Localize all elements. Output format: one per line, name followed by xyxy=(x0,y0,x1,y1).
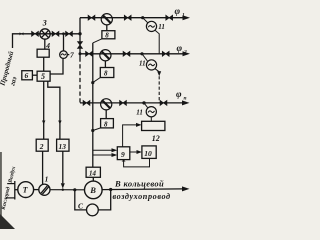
svg-text:9: 9 xyxy=(121,150,125,159)
svg-text:3: 3 xyxy=(42,19,47,28)
svg-text:8: 8 xyxy=(105,32,109,40)
svg-text:1: 1 xyxy=(45,175,49,184)
svg-text:11: 11 xyxy=(136,109,143,117)
svg-text:13: 13 xyxy=(59,142,67,151)
svg-text:воздухопровод: воздухопровод xyxy=(113,192,171,201)
svg-text:В: В xyxy=(89,185,96,195)
svg-text:12: 12 xyxy=(152,134,160,143)
svg-text:8: 8 xyxy=(104,70,108,78)
svg-text:8: 8 xyxy=(104,120,108,128)
svg-text:4: 4 xyxy=(45,41,50,50)
svg-text:φ: φ xyxy=(176,90,182,100)
svg-text:6: 6 xyxy=(25,71,29,80)
svg-text:10: 10 xyxy=(144,149,152,158)
svg-text:7: 7 xyxy=(70,51,74,60)
svg-text:11: 11 xyxy=(139,60,146,68)
svg-text:φ: φ xyxy=(177,44,183,54)
svg-text:1: 1 xyxy=(182,13,185,19)
svg-text:2: 2 xyxy=(183,50,187,56)
svg-text:В кольцевой: В кольцевой xyxy=(114,178,164,188)
svg-text:2: 2 xyxy=(39,142,44,151)
svg-text:11: 11 xyxy=(158,23,165,31)
svg-text:n: n xyxy=(184,96,187,102)
svg-text:5: 5 xyxy=(41,72,45,81)
svg-text:14: 14 xyxy=(89,170,97,178)
svg-text:φ: φ xyxy=(175,7,181,17)
